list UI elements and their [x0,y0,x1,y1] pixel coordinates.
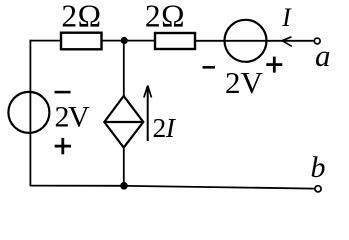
current arrow I (pointing left toward circuit) [282,37,292,47]
svg-text:2Ω: 2Ω [61,0,101,33]
dependent current source (diamond, 2I) [104,96,143,148]
svg-text:2: 2 [153,112,167,143]
wire bottom [30,186,315,189]
svg-text:a: a [315,38,331,73]
voltage source V2 (right, 2V) [225,20,267,62]
value label 2&#937; for R1 [61,0,101,33]
minus sign of V2 [203,66,216,69]
svg-text:I: I [281,3,292,32]
node junction dot bottom [120,182,128,190]
svg-text:2V: 2V [55,101,91,134]
terminal a (open circle) [314,38,320,44]
node junction dot top [121,37,128,44]
voltage source V1 (left, 2V) [8,92,49,133]
wire middle vertical lower [123,147,125,187]
value label 2V of V1 [55,101,91,134]
svg-text:b: b [311,151,326,184]
minus sign of V1 [55,91,71,94]
wire left vertical [29,40,31,186]
arrow of dependent source (pointing up) [144,86,152,142]
resistor R1 (2 ohm, left) [61,33,102,50]
current label I [281,3,292,32]
value label 2V of V2 [225,65,264,100]
node label b [311,151,326,184]
wire top-left segment [30,40,61,42]
svg-text:2Ω: 2Ω [145,0,185,33]
plus sign of V1 [55,138,71,154]
node label a [315,38,331,73]
terminal b (open circle) [315,186,321,192]
wire top middle (R1 to node) [102,40,156,42]
wire top right (R2 to terminal a) [195,40,314,42]
value label 2I of dependent source [153,112,177,143]
plus sign of V2 [266,57,282,73]
value label 2&#937; for R2 [145,0,185,33]
wire middle vertical upper [123,40,125,97]
resistor R2 (2 ohm, right) [155,33,195,49]
svg-text:2V: 2V [225,65,264,100]
